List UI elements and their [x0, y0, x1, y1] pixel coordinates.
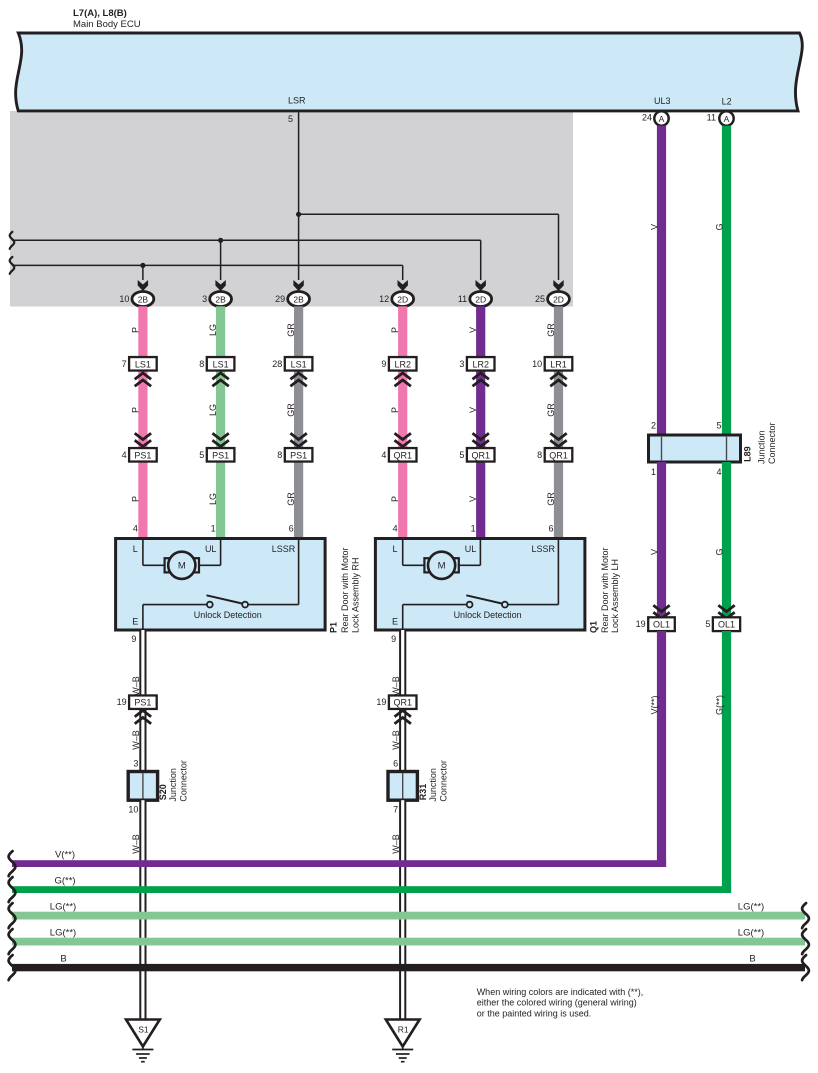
svg-text:6: 6: [393, 759, 398, 769]
connector circle A pin 24 (UL3): [642, 111, 669, 125]
label G(**) left: [54, 876, 75, 887]
wire G from L89 to OL1: [722, 462, 731, 617]
wire W-B from R31 to ground: [399, 800, 406, 1019]
wire color label P (middle): [390, 407, 400, 413]
wire color label V (lower): [650, 549, 660, 555]
svg-text:LR2: LR2: [394, 359, 411, 369]
pin 9 (E) below lock assembly x=402.7: [391, 634, 396, 644]
wire color label W-B: [391, 676, 401, 696]
svg-text:W–B: W–B: [391, 730, 401, 750]
label Rear Door with Motor Lock Assembly RH: [340, 547, 360, 633]
svg-text:PS1: PS1: [134, 450, 151, 460]
wire color label GR (middle): [546, 403, 556, 417]
svg-text:25: 25: [535, 294, 545, 304]
pin 2 into L89: [651, 421, 656, 431]
svg-text:Connector: Connector: [439, 760, 449, 802]
pin 6 into lock assembly: [548, 524, 553, 534]
wire color label V(**): [650, 695, 660, 714]
connector circle A pin 11 (L2): [707, 111, 734, 125]
svg-text:PS1: PS1: [212, 450, 229, 460]
svg-text:10: 10: [119, 294, 129, 304]
svg-text:GR: GR: [286, 323, 296, 337]
svg-text:V: V: [468, 496, 478, 502]
pin UL3 name: [654, 96, 671, 106]
arrow into connector at x=402.7: [398, 280, 408, 291]
pin LSR name: [288, 96, 306, 106]
svg-text:W–B: W–B: [391, 676, 401, 696]
wire color label LG (upper): [208, 324, 218, 336]
svg-text:V: V: [650, 549, 660, 555]
wire color label LG (lower): [208, 493, 218, 505]
label Q1: [588, 621, 598, 633]
wire color label P (upper): [390, 327, 400, 333]
label LG(**) upper left: [50, 902, 76, 913]
bus wire V(**) horizontal: [9, 851, 666, 876]
label Main Body ECU: [73, 19, 141, 30]
svg-text:B: B: [749, 954, 755, 965]
mating chevrons above PS1: [212, 433, 228, 446]
svg-text:5: 5: [199, 450, 204, 460]
wire color label G (upper): [715, 223, 725, 230]
svg-text:P: P: [390, 496, 400, 502]
wire W-B from PS1 to S20: [139, 709, 146, 772]
label R31 Junction Connector: [418, 760, 449, 802]
pin 1 into lock assembly: [471, 524, 476, 534]
pin 9 (E) below lock assembly x=142.9: [131, 634, 136, 644]
svg-text:GR: GR: [546, 323, 556, 337]
svg-text:either the colored wiring (gen: either the colored wiring (general wirin…: [477, 998, 637, 1008]
svg-text:11: 11: [458, 294, 467, 304]
lock assembly Q1: Rear Door with Motor Lock Assembly LH: [375, 539, 585, 631]
connector oval 2B pin 29: [275, 292, 309, 307]
svg-text:QR1: QR1: [471, 450, 490, 460]
svg-text:12: 12: [379, 294, 389, 304]
junction connector L89: [649, 435, 741, 462]
junction connector R31: [388, 772, 417, 801]
pin 10 out of S20: [128, 805, 138, 815]
svg-text:GR: GR: [546, 492, 556, 506]
label V(**) left: [55, 850, 75, 861]
svg-text:LS1: LS1: [135, 359, 151, 369]
label S20 Junction Connector: [158, 760, 189, 802]
svg-text:3: 3: [202, 294, 207, 304]
svg-text:19: 19: [636, 619, 646, 629]
pin 5 into L89: [716, 421, 721, 431]
svg-text:Junction: Junction: [757, 430, 767, 464]
wire color label GR (middle): [286, 403, 296, 417]
mating chevrons below PS1 pin 19: [135, 711, 151, 724]
svg-text:G: G: [715, 223, 725, 230]
connector OL1 pin 19: [636, 617, 675, 631]
wire color label V (middle): [468, 407, 478, 413]
svg-text:7: 7: [393, 805, 398, 815]
svg-text:2D: 2D: [475, 295, 486, 305]
svg-text:W–B: W–B: [131, 676, 141, 696]
svg-text:GR: GR: [286, 492, 296, 506]
svg-text:QR1: QR1: [393, 698, 412, 708]
connector PS1 pin 5: [199, 448, 234, 462]
svg-text:19: 19: [117, 697, 127, 707]
svg-text:S20: S20: [158, 784, 168, 800]
svg-text:Unlock Detection: Unlock Detection: [454, 610, 522, 620]
svg-text:Lock Assembly RH: Lock Assembly RH: [350, 557, 360, 633]
svg-text:P1: P1: [329, 622, 339, 633]
svg-text:P: P: [130, 327, 140, 333]
svg-text:Q1: Q1: [588, 621, 598, 633]
svg-text:V(**): V(**): [55, 850, 75, 861]
svg-text:8: 8: [277, 450, 282, 460]
wire color label P (middle): [130, 407, 140, 413]
mating chevrons below LR2: [395, 373, 411, 386]
svg-text:9: 9: [131, 634, 136, 644]
label Rear Door with Motor Lock Assembly LH: [600, 547, 620, 633]
wire GR from oval to lock assembly at x=558.5: [554, 306, 563, 538]
svg-text:V: V: [650, 224, 660, 230]
svg-text:LR2: LR2: [472, 359, 489, 369]
ECU U1: Main Body ECU L7(A), L8(B): [16, 33, 803, 111]
svg-text:LG(**): LG(**): [50, 928, 76, 939]
svg-text:6: 6: [548, 524, 553, 534]
pin L2 name: [722, 97, 732, 107]
svg-text:A: A: [724, 114, 730, 124]
svg-text:19: 19: [376, 697, 386, 707]
wire GR from oval to lock assembly at x=298.6: [294, 306, 303, 538]
connector oval 2D pin 11: [458, 292, 492, 307]
wire color label W-B: [391, 834, 401, 854]
svg-text:3: 3: [459, 359, 464, 369]
connector LR2 pin 9: [381, 357, 416, 371]
mating chevrons below LS1: [290, 373, 306, 386]
svg-text:9: 9: [391, 634, 396, 644]
svg-text:W–B: W–B: [391, 834, 401, 854]
pin 5 number (LSR): [288, 114, 293, 124]
svg-text:LG: LG: [208, 493, 218, 505]
arrow into connector at x=220.6: [215, 280, 225, 291]
svg-text:G(**): G(**): [715, 695, 725, 715]
connector oval 2B pin 3: [202, 292, 231, 307]
svg-text:2B: 2B: [215, 295, 226, 305]
svg-text:M: M: [178, 560, 186, 571]
svg-text:GR: GR: [546, 403, 556, 417]
connector QR1 pin 19: [376, 695, 416, 709]
svg-text:LSSR: LSSR: [532, 544, 556, 554]
pin 1 into lock assembly: [211, 524, 216, 534]
mating chevrons above OL1 pin 5: [718, 605, 734, 618]
label LG(**) lower right: [738, 928, 764, 939]
connector oval 2D pin 25: [535, 292, 569, 307]
svg-text:2D: 2D: [553, 295, 564, 305]
wire P from oval to lock assembly at x=142.9: [138, 306, 147, 538]
svg-text:UL: UL: [205, 544, 217, 554]
svg-text:OL1: OL1: [718, 620, 735, 630]
svg-text:LS1: LS1: [213, 359, 229, 369]
wire color label GR (upper): [546, 323, 556, 337]
label B left: [60, 954, 66, 965]
connector QR1 pin 5: [459, 448, 494, 462]
bus wire LG(**) lower: [9, 929, 809, 954]
svg-text:L: L: [133, 544, 138, 554]
mating chevrons below QR1 pin 19: [395, 711, 411, 724]
junction on LSR wire: [296, 212, 301, 217]
svg-text:7: 7: [122, 359, 127, 369]
svg-text:LR1: LR1: [550, 359, 567, 369]
svg-text:UL: UL: [465, 544, 477, 554]
svg-text:LS1: LS1: [291, 359, 307, 369]
bus wire G(**) horizontal: [9, 877, 731, 902]
connector PS1 pin 8: [277, 448, 312, 462]
wire W-B from S20 to ground: [139, 800, 146, 1019]
ground R1: [386, 1020, 420, 1062]
wire V from oval to lock assembly at x=480.7: [476, 306, 485, 538]
svg-text:PS1: PS1: [134, 698, 151, 708]
svg-text:LG(**): LG(**): [738, 928, 764, 939]
wire branch to pin 3 2B: [220, 240, 222, 280]
wire G(**) from OL1 down to bus: [722, 631, 731, 893]
wire color label W-B: [131, 730, 141, 750]
wire bus B from left (break) to pin 12 2D: [10, 257, 403, 280]
svg-text:Main Body ECU: Main Body ECU: [73, 19, 141, 30]
mating chevrons below LR1: [550, 373, 566, 386]
svg-text:QR1: QR1: [393, 450, 412, 460]
svg-text:5: 5: [716, 421, 721, 431]
wire W-B from E to QR1: [399, 630, 406, 695]
svg-text:P: P: [130, 496, 140, 502]
connector LS1 pin 7: [122, 357, 157, 371]
pin 3 into S20: [133, 759, 138, 769]
connector oval 2D pin 12: [379, 292, 413, 307]
connector OL1 pin 5: [705, 617, 740, 631]
svg-text:G: G: [715, 548, 725, 555]
arrow into connector at x=142.9: [138, 280, 148, 291]
wire color label GR (lower): [546, 492, 556, 506]
svg-text:E: E: [132, 617, 138, 627]
junction on bus B: [140, 263, 145, 268]
svg-text:2B: 2B: [138, 295, 149, 305]
svg-text:L2: L2: [722, 97, 732, 107]
connector QR1 pin 4: [381, 448, 416, 462]
svg-text:V(**): V(**): [650, 695, 660, 714]
connector PS1 pin 4: [122, 448, 157, 462]
svg-text:W–B: W–B: [131, 730, 141, 750]
wire W-B from E to PS1: [139, 630, 146, 695]
mating chevrons above QR1: [550, 433, 566, 446]
harness shading region behind ECU connectors: [10, 111, 573, 307]
wire bus A from left (break) to pin 11 2D: [10, 232, 481, 280]
svg-text:V: V: [468, 407, 478, 413]
svg-text:LSSR: LSSR: [272, 544, 296, 554]
label LG(**) upper right: [738, 902, 764, 913]
mating chevrons below LS1: [135, 373, 151, 386]
pin 4 into lock assembly: [133, 524, 138, 534]
wire color label W-B: [131, 834, 141, 854]
label P1: [329, 622, 339, 633]
svg-text:P: P: [130, 407, 140, 413]
svg-text:P: P: [390, 327, 400, 333]
arrow into connector at x=558.5: [553, 280, 563, 291]
wire from LSR pin 5 down: [298, 113, 300, 281]
lock assembly P1: Rear Door with Motor Lock Assembly RH: [116, 539, 326, 631]
svg-text:5: 5: [288, 114, 293, 124]
label L7(A), L8(B): [73, 8, 127, 19]
svg-text:Junction: Junction: [168, 768, 178, 802]
svg-text:1: 1: [211, 524, 216, 534]
wire G from ECU pin 11 to L89: [722, 126, 731, 435]
arrow into connector at x=298.6: [293, 280, 303, 291]
svg-text:L7(A), L8(B): L7(A), L8(B): [73, 8, 127, 19]
svg-text:P: P: [390, 407, 400, 413]
junction connector S20: [128, 772, 157, 801]
svg-text:10: 10: [128, 805, 138, 815]
wire color label GR (upper): [286, 323, 296, 337]
label LG(**) lower left: [50, 928, 76, 939]
svg-text:GR: GR: [286, 403, 296, 417]
note about wiring colors: [477, 987, 644, 1018]
svg-text:G(**): G(**): [54, 876, 75, 887]
wire color label GR (lower): [286, 492, 296, 506]
svg-text:Connector: Connector: [767, 422, 777, 464]
connector LR1 pin 10: [532, 357, 572, 371]
svg-text:11: 11: [707, 113, 716, 123]
wire W-B from QR1 to R31: [399, 709, 406, 772]
svg-text:LG(**): LG(**): [738, 902, 764, 913]
bus wire B (black) horizontal: [9, 955, 809, 980]
mating chevrons above QR1: [473, 433, 489, 446]
ground S1: [126, 1020, 160, 1062]
svg-text:2: 2: [651, 421, 656, 431]
connector QR1 pin 8: [537, 448, 572, 462]
arrow into connector at x=480.7: [476, 280, 486, 291]
svg-text:1: 1: [471, 524, 476, 534]
bus wire LG(**) upper: [9, 903, 809, 928]
pin 1 out of L89: [651, 467, 656, 477]
svg-text:6: 6: [289, 524, 294, 534]
svg-text:L89: L89: [743, 446, 753, 462]
wire color label P (upper): [130, 327, 140, 333]
svg-text:10: 10: [532, 359, 542, 369]
wire color label P (lower): [130, 496, 140, 502]
svg-text:2D: 2D: [397, 295, 408, 305]
svg-text:R1: R1: [398, 1025, 409, 1035]
svg-text:Lock Assembly LH: Lock Assembly LH: [610, 559, 620, 633]
mating chevrons below LS1: [212, 373, 228, 386]
svg-text:1: 1: [651, 467, 656, 477]
svg-text:4: 4: [716, 467, 721, 477]
wire V(**) from OL1 down to bus: [657, 631, 666, 867]
svg-text:4: 4: [393, 524, 398, 534]
wire V from ECU pin 24 to L89: [657, 126, 666, 435]
wire LG from oval to lock assembly at x=220.6: [216, 306, 225, 538]
connector LS1 pin 8: [199, 357, 234, 371]
mating chevrons below LR2: [473, 373, 489, 386]
connector PS1 pin 19: [117, 695, 157, 709]
svg-text:5: 5: [705, 619, 710, 629]
svg-text:8: 8: [199, 359, 204, 369]
connector LS1 pin 28: [272, 357, 312, 371]
svg-text:3: 3: [133, 759, 138, 769]
svg-text:L: L: [392, 544, 397, 554]
svg-text:2B: 2B: [293, 295, 304, 305]
wire branch to pin 10 2B: [142, 265, 144, 280]
label B right: [749, 954, 755, 965]
svg-text:V: V: [468, 327, 478, 333]
svg-text:E: E: [392, 617, 398, 627]
wire branch LSR to pin 25 2D: [299, 214, 559, 280]
svg-text:OL1: OL1: [653, 620, 670, 630]
svg-text:4: 4: [381, 450, 386, 460]
svg-text:LG: LG: [208, 324, 218, 336]
pin 4 out of L89: [716, 467, 721, 477]
svg-text:4: 4: [133, 524, 138, 534]
pin 6 into R31: [393, 759, 398, 769]
svg-text:QR1: QR1: [549, 450, 568, 460]
svg-text:When wiring colors are indicat: When wiring colors are indicated with (*…: [477, 987, 644, 997]
svg-text:4: 4: [122, 450, 127, 460]
mating chevrons above OL1 pin 19: [653, 605, 669, 618]
wire V from L89 to OL1: [657, 462, 666, 617]
svg-text:Connector: Connector: [179, 760, 189, 802]
svg-text:A: A: [659, 114, 665, 124]
svg-text:5: 5: [459, 450, 464, 460]
label L89 Junction Connector: [743, 422, 778, 464]
wire color label W-B: [391, 730, 401, 750]
wire color label V (lower): [468, 496, 478, 502]
svg-text:24: 24: [642, 113, 652, 123]
connector oval 2B pin 10: [119, 292, 153, 307]
wire P from oval to lock assembly at x=402.7: [398, 306, 407, 538]
wire color label G (lower): [715, 548, 725, 555]
pin 6 into lock assembly: [289, 524, 294, 534]
svg-text:LG: LG: [208, 404, 218, 416]
svg-text:Rear Door with Motor: Rear Door with Motor: [600, 547, 610, 633]
svg-text:W–B: W–B: [131, 834, 141, 854]
svg-text:LG(**): LG(**): [50, 902, 76, 913]
svg-text:B: B: [60, 954, 66, 965]
svg-text:8: 8: [537, 450, 542, 460]
mating chevrons above QR1: [395, 433, 411, 446]
svg-text:LSR: LSR: [288, 96, 306, 106]
wire color label LG (middle): [208, 404, 218, 416]
wire color label P (lower): [390, 496, 400, 502]
svg-text:28: 28: [272, 359, 282, 369]
svg-text:Junction: Junction: [428, 768, 438, 802]
svg-text:R31: R31: [418, 784, 428, 801]
svg-text:Rear Door with Motor: Rear Door with Motor: [340, 547, 350, 633]
svg-text:29: 29: [275, 294, 285, 304]
pin 4 into lock assembly: [393, 524, 398, 534]
wire color label V (upper): [468, 327, 478, 333]
mating chevrons above PS1: [135, 433, 151, 446]
wire color label G(**): [715, 695, 725, 715]
svg-text:Unlock Detection: Unlock Detection: [194, 610, 262, 620]
svg-text:S1: S1: [138, 1025, 149, 1035]
svg-text:or the painted wiring is used.: or the painted wiring is used.: [477, 1008, 592, 1018]
mating chevrons above PS1: [290, 433, 306, 446]
connector LR2 pin 3: [459, 357, 494, 371]
svg-text:UL3: UL3: [654, 96, 671, 106]
pin 7 out of R31: [393, 805, 398, 815]
junction on bus A: [218, 238, 223, 243]
wire color label V (upper): [650, 224, 660, 230]
svg-text:PS1: PS1: [290, 450, 307, 460]
svg-text:9: 9: [381, 359, 386, 369]
wire color label W-B: [131, 676, 141, 696]
svg-text:M: M: [438, 560, 446, 571]
